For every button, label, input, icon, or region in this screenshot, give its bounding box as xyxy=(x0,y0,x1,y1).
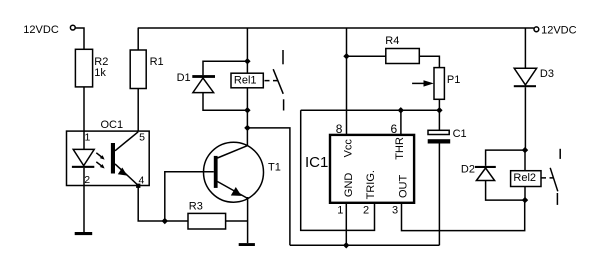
wire Rel2 vertical xyxy=(524,150,526,200)
dashed link Rel2 to contact xyxy=(541,177,553,179)
svg-text:P1: P1 xyxy=(447,74,460,86)
svg-text:THR: THR xyxy=(394,137,406,160)
diode D1 xyxy=(177,72,215,93)
node junction Rel2 top xyxy=(522,147,528,153)
svg-text:1: 1 xyxy=(85,131,91,143)
wire THR node line xyxy=(301,109,440,111)
wire pin1 stub xyxy=(345,203,347,246)
wire rail down to D3 xyxy=(524,28,526,68)
node junction Rel1 bottom xyxy=(244,107,250,113)
LED inside OC1 xyxy=(83,131,85,149)
diode D3 xyxy=(514,68,554,87)
wire D2 branch xyxy=(486,150,525,200)
potentiometer P1 xyxy=(412,68,460,100)
wire to R4 xyxy=(347,55,386,57)
svg-text:OUT: OUT xyxy=(398,175,410,199)
svg-text:D2: D2 xyxy=(461,164,475,176)
relay coil Rel2 xyxy=(511,171,541,187)
svg-text:Vcc: Vcc xyxy=(342,139,354,158)
svg-text:C1: C1 xyxy=(453,128,467,140)
svg-text:5: 5 xyxy=(139,131,145,143)
wire pin6 stub xyxy=(400,110,402,135)
node junction R4 branch xyxy=(343,53,349,59)
node junction base xyxy=(162,218,168,224)
wire terminal-left to R2 xyxy=(76,28,85,49)
svg-text:Rel1: Rel1 xyxy=(234,74,257,86)
svg-text:R4: R4 xyxy=(385,35,399,47)
svg-text:2: 2 xyxy=(84,174,90,186)
ground T1 emitter xyxy=(239,243,255,246)
node junction Rel2 bottom xyxy=(522,197,528,203)
svg-text:IC1: IC1 xyxy=(305,154,328,171)
wire OC1 pin2 to ground xyxy=(83,186,85,233)
svg-text:OC1: OC1 xyxy=(101,119,124,131)
resistor R4 xyxy=(385,35,419,64)
dashed link Rel1 to contact xyxy=(265,80,279,82)
wire T1 emitter down xyxy=(247,197,249,243)
resistor R2 1k xyxy=(75,49,108,87)
svg-text:1k: 1k xyxy=(94,67,106,79)
svg-text:D3: D3 xyxy=(540,68,554,80)
capacitor C1 xyxy=(428,110,467,143)
wire R3 to emitter xyxy=(226,220,248,222)
terminal 12VDC right xyxy=(534,24,577,36)
svg-text:12VDC: 12VDC xyxy=(23,24,59,36)
phototransistor inside OC1 xyxy=(111,143,115,174)
wire Rel1 main vertical xyxy=(246,28,248,146)
wire R4 to P1 xyxy=(419,56,439,67)
wire T1 base xyxy=(165,172,214,221)
svg-text:2: 2 xyxy=(363,204,369,216)
svg-text:D1: D1 xyxy=(177,72,191,84)
relay coil Rel1 xyxy=(231,73,263,88)
svg-text:R1: R1 xyxy=(150,56,164,68)
node junction pin1 gnd xyxy=(343,242,349,248)
wire R1 to OC1 pin5 xyxy=(137,89,139,132)
svg-text:T1: T1 xyxy=(268,162,281,174)
wire D1 branch bottom xyxy=(203,93,247,111)
svg-text:1: 1 xyxy=(337,204,343,216)
optocoupler OC1 xyxy=(67,119,150,188)
svg-text:TRIG.: TRIG. xyxy=(365,170,377,199)
wire P1 bottom to node xyxy=(438,99,440,110)
wire ground rail xyxy=(290,244,440,246)
node junction P1/C1 xyxy=(436,107,442,113)
wire D1 branch top xyxy=(203,61,247,75)
wire IC1 pin8 riser xyxy=(346,28,348,135)
transistor T1 xyxy=(204,142,281,202)
light arrows xyxy=(96,153,103,159)
wire OUT to Rel2 xyxy=(402,200,525,231)
wire R2 to OC1 pin1 xyxy=(83,87,85,131)
wire R1 top to rail xyxy=(137,28,139,50)
svg-text:GND: GND xyxy=(343,173,355,198)
node junction Rel1 top xyxy=(244,58,250,64)
relay contact Rel1 xyxy=(273,50,283,111)
IC1 timer box xyxy=(305,122,414,217)
wire collector node to ground riser xyxy=(247,128,290,245)
relay contact Rel2 xyxy=(550,149,560,205)
svg-text:3: 3 xyxy=(392,204,398,216)
wire C1 bottom riser xyxy=(438,144,440,246)
svg-text:6: 6 xyxy=(391,122,398,136)
diode D2 xyxy=(461,164,496,181)
node junction collector xyxy=(244,125,250,131)
wire D3 to Rel2 node xyxy=(524,87,526,150)
svg-text:R3: R3 xyxy=(189,200,203,212)
wire top supply rail xyxy=(138,27,534,29)
svg-text:12VDC: 12VDC xyxy=(541,24,577,36)
svg-text:Rel2: Rel2 xyxy=(513,172,536,184)
resistor R3 xyxy=(188,200,226,229)
wire TRIG riser xyxy=(301,110,375,230)
terminal 12VDC left xyxy=(23,24,75,36)
resistor R1 xyxy=(130,50,163,89)
node junction pin6 xyxy=(398,107,404,113)
wire OC1 pin4 to R3 xyxy=(138,186,188,222)
svg-text:8: 8 xyxy=(336,122,343,136)
ground OC1 pin2 xyxy=(75,232,93,235)
